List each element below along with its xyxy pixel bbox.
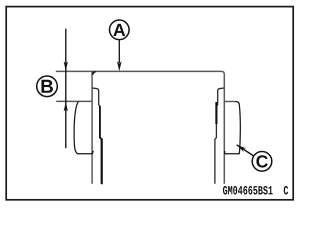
right outer edge — [223, 74, 225, 184]
callout A arrowhead — [117, 61, 122, 71]
dimension B line — [65, 29, 67, 149]
right bulge top line — [224, 101, 235, 103]
dimension B up arrow — [64, 102, 68, 112]
border frame — [6, 7, 293, 200]
callout C leader — [237, 145, 254, 156]
left column edge — [91, 71, 93, 183]
left inner step emphasized lower segment — [100, 106, 102, 184]
callout A leader — [118, 40, 120, 63]
left seal bulge outline — [74, 101, 92, 153]
part code suffix C — [284, 186, 288, 195]
right seal bulge hook tick — [224, 151, 226, 154]
top surface line with right corner — [56, 71, 225, 74]
callout A letter — [113, 24, 125, 36]
right seal bulge outline — [225, 102, 241, 154]
right inner step profile — [215, 88, 224, 184]
callout C letter — [256, 155, 267, 167]
callout A circle — [110, 20, 130, 40]
left inner step profile — [92, 88, 101, 184]
callout B letter — [41, 80, 53, 93]
part code text GM04665BS1 — [223, 186, 273, 195]
dimension B down arrow — [64, 61, 68, 71]
left seal bulge hook tick — [92, 151, 94, 154]
fillet at left shoulder — [93, 72, 96, 75]
lower-left reference line — [56, 100, 92, 102]
callout C circle — [252, 152, 272, 172]
callout B circle — [37, 76, 58, 97]
callout C arrowhead — [237, 145, 247, 152]
right inner step emphasized segment — [215, 102, 217, 124]
